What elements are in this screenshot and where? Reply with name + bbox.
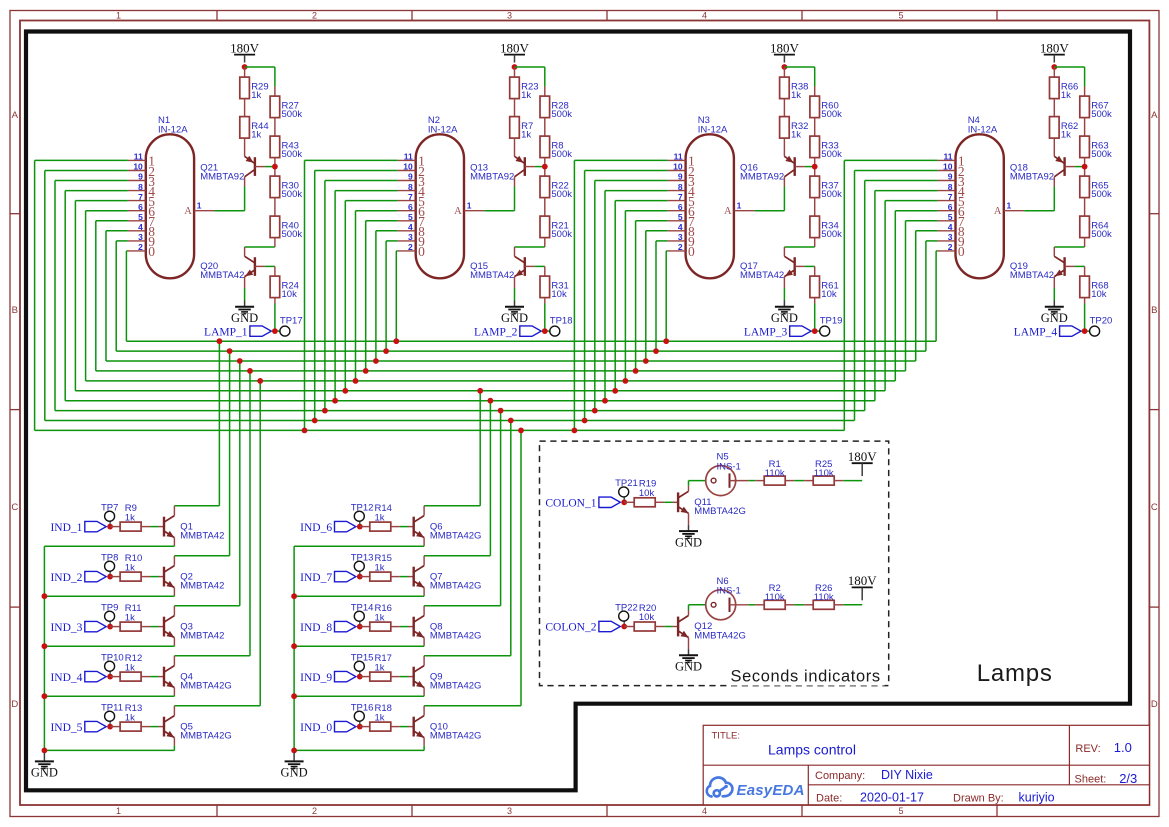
resistor R17 xyxy=(370,653,392,681)
wire xyxy=(814,266,816,276)
resistor R25 xyxy=(813,459,834,485)
neon lamp N6 INS-1 xyxy=(706,576,749,620)
ground xyxy=(771,301,798,326)
wire xyxy=(274,118,276,137)
svg-text:TP8: TP8 xyxy=(101,552,118,563)
wire xyxy=(1084,198,1086,217)
transistor Q8 xyxy=(408,616,481,642)
junction: divider node xyxy=(272,164,278,170)
wire: collector to anode pin xyxy=(1024,187,1054,211)
svg-text:COLON_1: COLON_1 xyxy=(545,498,596,510)
svg-text:TP7: TP7 xyxy=(101,502,118,513)
svg-text:A: A xyxy=(454,206,462,217)
junction: lamp node xyxy=(542,328,548,334)
test point TP13 xyxy=(351,552,374,571)
wire xyxy=(244,99,246,117)
transistor Q6 xyxy=(408,516,481,542)
wire xyxy=(814,87,816,97)
wire: R to collector xyxy=(245,246,275,248)
resistor R68 xyxy=(1080,276,1109,300)
junction: rail joins xyxy=(291,593,297,753)
wire xyxy=(748,604,764,606)
svg-text:3: 3 xyxy=(678,232,683,242)
svg-text:1k: 1k xyxy=(125,612,135,623)
svg-text:A: A xyxy=(12,110,19,121)
wire xyxy=(360,576,370,578)
svg-text:MMBTA42G: MMBTA42G xyxy=(180,731,232,742)
svg-text:180V: 180V xyxy=(1040,40,1070,55)
svg-text:IND_7: IND_7 xyxy=(300,572,332,584)
wire: 10k to lamp node xyxy=(274,298,276,332)
svg-text:TP15: TP15 xyxy=(351,652,374,663)
resistor R40 xyxy=(270,216,302,240)
svg-text:1k: 1k xyxy=(251,130,261,141)
resistor R1 xyxy=(764,459,785,485)
wire: collector up xyxy=(173,506,175,516)
wire xyxy=(1053,138,1055,156)
svg-text:1k: 1k xyxy=(375,562,385,573)
svg-text:500k: 500k xyxy=(1091,189,1112,200)
title block xyxy=(703,725,1149,805)
ground xyxy=(1041,301,1068,326)
svg-text:2: 2 xyxy=(312,806,317,816)
wire: base to divider xyxy=(805,166,815,168)
power flag 180V xyxy=(848,573,878,600)
port IND_9 xyxy=(300,671,356,683)
wire xyxy=(109,521,111,524)
wire: emitter to ground xyxy=(244,288,246,301)
wire: emitter down xyxy=(294,688,424,697)
transistor Q9 xyxy=(408,666,481,692)
wire: emitter to ground xyxy=(1053,288,1055,301)
wire xyxy=(359,621,361,624)
wire: collector up xyxy=(173,556,175,566)
test point TP19 xyxy=(820,315,843,336)
port LAMP_4 xyxy=(1014,326,1081,338)
svg-text:3: 3 xyxy=(507,806,512,816)
svg-text:MMBTA42: MMBTA42 xyxy=(180,531,224,542)
svg-text:TP11: TP11 xyxy=(101,702,123,713)
wire: 180V to 500k stack xyxy=(515,67,545,87)
svg-text:MMBTA42G: MMBTA42G xyxy=(430,731,482,742)
svg-text:MMBTA42: MMBTA42 xyxy=(740,270,784,281)
svg-text:3: 3 xyxy=(138,232,143,242)
wire xyxy=(544,238,546,247)
junction: colon base node xyxy=(621,499,627,505)
wire: collector to anode pin xyxy=(215,187,245,211)
wire xyxy=(1084,118,1086,137)
wire: 10k to lamp node xyxy=(814,298,816,332)
wire: emitter to ground xyxy=(783,288,785,301)
wire xyxy=(811,330,820,332)
svg-text:9: 9 xyxy=(948,172,953,182)
wire xyxy=(535,265,545,267)
wire: base to divider xyxy=(265,166,275,168)
test point TP20 xyxy=(1090,315,1113,336)
svg-text:4: 4 xyxy=(702,806,707,816)
ground xyxy=(501,301,528,326)
svg-text:10: 10 xyxy=(133,162,143,172)
svg-text:kuriyio: kuriyio xyxy=(1019,790,1055,804)
wire: emitter to ground xyxy=(688,513,690,525)
svg-text:500k: 500k xyxy=(821,109,842,120)
svg-text:REV:: REV: xyxy=(1075,743,1100,755)
ground xyxy=(31,753,58,780)
test point TP10 xyxy=(101,652,124,671)
resistor R22 xyxy=(540,176,572,200)
transistor Q3 xyxy=(159,616,225,642)
svg-text:IND_4: IND_4 xyxy=(50,672,82,684)
svg-text:TP21: TP21 xyxy=(615,478,638,489)
svg-text:8: 8 xyxy=(408,182,413,192)
wire: emitter down xyxy=(294,638,424,647)
wire: R to collector xyxy=(784,246,814,248)
wire xyxy=(1053,67,1055,77)
svg-text:0: 0 xyxy=(688,244,695,259)
wire xyxy=(1084,158,1086,177)
svg-text:Company:: Company: xyxy=(815,770,865,782)
svg-text:3: 3 xyxy=(948,232,953,242)
svg-text:9: 9 xyxy=(138,172,143,182)
port IND_5 xyxy=(50,721,106,733)
wire: emitter down xyxy=(44,588,174,597)
wire xyxy=(141,676,159,678)
ground xyxy=(675,525,702,550)
wire xyxy=(1081,330,1090,332)
svg-text:MMBTA92: MMBTA92 xyxy=(200,171,244,182)
svg-text:110k: 110k xyxy=(814,592,834,603)
wire xyxy=(110,676,120,678)
wire: emitter down xyxy=(44,538,174,547)
svg-text:6: 6 xyxy=(948,202,953,212)
transistor Q16 xyxy=(740,156,805,187)
svg-text:MMBTA42G: MMBTA42G xyxy=(180,681,232,692)
resistor R30 xyxy=(270,176,302,200)
wire xyxy=(110,526,120,528)
svg-text:MMBTA92: MMBTA92 xyxy=(470,171,514,182)
svg-text:1: 1 xyxy=(116,806,121,816)
svg-text:MMBTA42: MMBTA42 xyxy=(180,631,224,642)
label: Seconds indicators xyxy=(728,666,885,686)
junction: base node xyxy=(107,524,113,530)
svg-text:TP12: TP12 xyxy=(351,502,374,513)
svg-text:1k: 1k xyxy=(375,612,385,623)
wire xyxy=(834,480,862,482)
resistor R20 xyxy=(634,603,656,631)
wire: 180V to 500k stack xyxy=(784,67,814,87)
svg-text:A: A xyxy=(994,206,1002,217)
svg-text:MMBTA42G: MMBTA42G xyxy=(430,581,482,592)
wire xyxy=(360,676,370,678)
resistor R18 xyxy=(370,703,392,731)
resistor R44 xyxy=(240,117,269,141)
power flag 180V xyxy=(500,40,530,62)
transistor Q11 xyxy=(673,491,746,517)
wire xyxy=(834,604,862,606)
wire xyxy=(805,265,815,267)
wire xyxy=(1084,266,1086,276)
transistor Q21 xyxy=(200,156,265,187)
resistor R32 xyxy=(780,117,809,141)
svg-text:5: 5 xyxy=(948,212,953,222)
svg-text:EasyEDA: EasyEDA xyxy=(737,782,805,799)
svg-text:10: 10 xyxy=(403,162,413,172)
wire xyxy=(1075,265,1085,267)
svg-text:180V: 180V xyxy=(770,40,800,55)
svg-text:A: A xyxy=(1151,110,1158,121)
wire xyxy=(544,198,546,217)
junction: lamp node xyxy=(812,328,818,334)
svg-text:4: 4 xyxy=(948,222,953,232)
wire xyxy=(110,726,120,728)
wire xyxy=(274,198,276,217)
port LAMP_1 xyxy=(204,326,271,338)
power flag 180V xyxy=(1040,40,1070,62)
svg-text:MMBTA42: MMBTA42 xyxy=(470,270,514,281)
svg-text:IN-12A: IN-12A xyxy=(158,125,188,136)
port COLON_1 xyxy=(545,497,620,509)
wire: emitter rail xyxy=(293,546,295,752)
resistor R8 xyxy=(540,136,572,160)
test point TP15 xyxy=(351,652,374,671)
svg-text:10: 10 xyxy=(943,162,953,172)
ground xyxy=(231,301,258,326)
svg-text:180V: 180V xyxy=(848,449,878,464)
svg-text:GND: GND xyxy=(675,660,702,674)
junction: 180V node xyxy=(1051,64,1057,70)
svg-text:1k: 1k xyxy=(791,90,801,101)
seconds indicators box xyxy=(540,441,889,685)
svg-text:4: 4 xyxy=(138,222,143,232)
wire: collector up xyxy=(173,606,175,616)
svg-text:8: 8 xyxy=(678,182,683,192)
wire: tube N3 cathode nest xyxy=(574,160,667,430)
svg-text:6: 6 xyxy=(678,202,683,212)
svg-text:1.0: 1.0 xyxy=(1114,740,1132,755)
svg-text:Lamps control: Lamps control xyxy=(768,742,856,758)
resistor R15 xyxy=(370,553,392,581)
junction: bus drops Q6-Q10 xyxy=(477,388,524,433)
junction: base node xyxy=(357,624,363,630)
svg-text:1: 1 xyxy=(197,201,202,211)
svg-text:GND: GND xyxy=(501,311,528,325)
svg-text:COLON_2: COLON_2 xyxy=(545,622,596,634)
test point TP12 xyxy=(351,502,374,521)
svg-text:GND: GND xyxy=(1041,311,1068,325)
port LAMP_2 xyxy=(474,326,541,338)
transistor Q19 xyxy=(1010,247,1075,288)
svg-text:Drawn By:: Drawn By: xyxy=(953,792,1004,804)
svg-text:500k: 500k xyxy=(1091,149,1112,160)
svg-text:TP16: TP16 xyxy=(351,702,374,713)
svg-text:MMBTA42: MMBTA42 xyxy=(1010,270,1054,281)
svg-text:7: 7 xyxy=(408,192,413,202)
svg-text:0: 0 xyxy=(418,244,425,259)
junction: divider node xyxy=(1082,164,1088,170)
svg-text:TP14: TP14 xyxy=(351,602,374,613)
nixie tube N3 IN-12A xyxy=(668,115,755,278)
svg-text:2/3: 2/3 xyxy=(1119,771,1137,786)
port LAMP_3 xyxy=(744,326,811,338)
svg-text:Date:: Date: xyxy=(816,792,842,804)
wire xyxy=(391,576,409,578)
wire: bus drops to Q1-Q5 xyxy=(174,341,260,706)
test point TP9 xyxy=(101,602,118,621)
junction: base node xyxy=(107,624,113,630)
wire: tube N2 cathode nest xyxy=(305,160,398,430)
svg-text:0: 0 xyxy=(148,244,155,259)
junction: 180V node xyxy=(512,64,518,70)
test point TP8 xyxy=(101,552,118,571)
wire: collector to neon xyxy=(689,605,706,616)
wire xyxy=(274,238,276,247)
wire xyxy=(623,497,625,500)
resistor R9 xyxy=(120,503,141,531)
svg-text:LAMP_4: LAMP_4 xyxy=(1014,326,1058,338)
svg-text:TP9: TP9 xyxy=(101,602,118,613)
svg-text:1k: 1k xyxy=(521,90,531,101)
resistor R67 xyxy=(1080,96,1112,120)
resistor R29 xyxy=(240,77,269,101)
wire xyxy=(541,330,550,332)
svg-text:500k: 500k xyxy=(551,109,572,120)
transistor Q4 xyxy=(159,666,232,692)
wire: tube N4 cathode nest xyxy=(844,160,937,430)
svg-text:MMBTA42G: MMBTA42G xyxy=(430,631,482,642)
svg-text:1k: 1k xyxy=(251,90,261,101)
wire xyxy=(141,626,159,628)
logo EasyEDA xyxy=(707,777,805,799)
junction: base node xyxy=(357,524,363,530)
junction: lamp node xyxy=(1082,328,1088,334)
wire: emitter to ground xyxy=(514,288,516,301)
svg-text:500k: 500k xyxy=(1091,229,1112,240)
junction: base node xyxy=(357,574,363,580)
wire xyxy=(359,721,361,724)
test point TP11 xyxy=(101,702,123,721)
svg-text:2: 2 xyxy=(408,242,413,252)
svg-text:7: 7 xyxy=(948,192,953,202)
port IND_0 xyxy=(300,721,356,733)
svg-text:GND: GND xyxy=(675,535,702,549)
resistor R26 xyxy=(813,583,834,609)
nixie tube N2 IN-12A xyxy=(398,115,485,278)
svg-text:C: C xyxy=(1151,502,1158,513)
svg-text:500k: 500k xyxy=(551,189,572,200)
resistor R31 xyxy=(540,276,569,300)
svg-text:500k: 500k xyxy=(821,229,842,240)
wire xyxy=(391,676,409,678)
wire xyxy=(391,626,409,628)
svg-text:8: 8 xyxy=(948,182,953,192)
junction: divider node xyxy=(542,164,548,170)
wire xyxy=(110,576,120,578)
wire xyxy=(624,501,634,503)
svg-text:500k: 500k xyxy=(551,229,572,240)
wire: tube N1 cathode nest xyxy=(35,160,128,430)
wire xyxy=(785,604,813,606)
wire: collector to anode pin xyxy=(484,187,514,211)
svg-text:11: 11 xyxy=(134,152,143,162)
wire xyxy=(141,526,159,528)
svg-text:0: 0 xyxy=(958,244,965,259)
ground xyxy=(281,753,308,780)
resistor R66 xyxy=(1050,77,1079,101)
svg-text:2020-01-17: 2020-01-17 xyxy=(860,790,924,804)
junction: base node xyxy=(107,674,113,680)
svg-text:MMBTA92: MMBTA92 xyxy=(740,171,784,182)
resistor R34 xyxy=(810,216,842,240)
svg-text:B: B xyxy=(1151,305,1157,316)
wire xyxy=(110,626,120,628)
svg-text:DIY Nixie: DIY Nixie xyxy=(881,768,933,782)
svg-text:LAMP_2: LAMP_2 xyxy=(474,326,518,338)
svg-text:TP20: TP20 xyxy=(1090,315,1113,326)
svg-text:IN-12A: IN-12A xyxy=(428,125,458,136)
wire xyxy=(1084,87,1086,97)
svg-text:4: 4 xyxy=(702,10,707,20)
svg-text:MMBTA42G: MMBTA42G xyxy=(430,681,482,692)
test point TP18 xyxy=(550,315,573,336)
transistor Q5 xyxy=(159,716,232,742)
wire xyxy=(141,726,159,728)
svg-text:IND_6: IND_6 xyxy=(300,522,332,534)
wire xyxy=(359,671,361,674)
svg-text:500k: 500k xyxy=(821,189,842,200)
resistor R7 xyxy=(510,117,534,141)
wire: 10k to lamp node xyxy=(1084,298,1086,332)
transistor Q15 xyxy=(470,247,535,288)
wire xyxy=(141,576,159,578)
ground xyxy=(675,649,702,674)
svg-text:110k: 110k xyxy=(765,592,785,603)
wire: emitter down xyxy=(44,738,174,751)
wire xyxy=(359,521,361,524)
junction: 180V node xyxy=(242,64,248,70)
transistor Q2 xyxy=(159,566,225,592)
wire xyxy=(109,721,111,724)
wire xyxy=(544,118,546,137)
test point TP7 xyxy=(101,502,118,521)
resistor R38 xyxy=(780,77,809,101)
svg-text:11: 11 xyxy=(404,152,413,162)
svg-text:1k: 1k xyxy=(375,662,385,673)
svg-text:500k: 500k xyxy=(821,149,842,160)
power flag 180V xyxy=(230,40,260,62)
svg-text:MMBTA42G: MMBTA42G xyxy=(694,630,746,641)
test point TP21 xyxy=(615,478,638,497)
wire xyxy=(391,526,409,528)
resistor R19 xyxy=(634,479,656,507)
svg-text:C: C xyxy=(11,502,18,513)
svg-text:GND: GND xyxy=(231,311,258,325)
svg-text:1k: 1k xyxy=(375,712,385,723)
wire xyxy=(814,238,816,247)
resistor R61 xyxy=(810,276,839,300)
resistor R37 xyxy=(810,176,842,200)
svg-text:7: 7 xyxy=(678,192,683,202)
wire xyxy=(274,87,276,97)
svg-text:10k: 10k xyxy=(282,289,298,300)
port IND_4 xyxy=(50,671,106,683)
svg-text:TP10: TP10 xyxy=(101,652,124,663)
svg-text:500k: 500k xyxy=(282,109,303,120)
power flag 180V xyxy=(770,40,800,62)
svg-text:LAMP_3: LAMP_3 xyxy=(744,326,788,338)
svg-text:1k: 1k xyxy=(521,130,531,141)
wire: emitter down xyxy=(44,688,174,697)
nixie tube N1 IN-12A xyxy=(128,115,215,278)
